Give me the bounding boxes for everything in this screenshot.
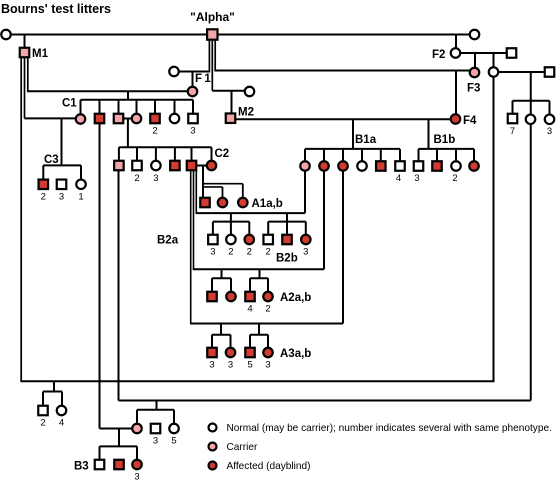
wire B1b child drop 4 [473, 149, 475, 161]
svg-text:3: 3 [265, 360, 270, 371]
male square 549-72 [545, 67, 555, 77]
svg-text:2: 2 [266, 247, 271, 258]
svg-text:3: 3 [153, 436, 158, 447]
C1-3 male (pink carrier) [114, 114, 124, 124]
wire C3 child drop 3 [80, 165, 82, 179]
female child circle 3 [545, 115, 555, 125]
svg-text:2: 2 [247, 247, 252, 258]
A2b-2 female (red affected) [263, 292, 273, 302]
wire A2b child drop 2 [267, 278, 269, 292]
A2b-1 male (red affected) [245, 292, 255, 302]
svg-text:"Alpha": "Alpha" [190, 10, 235, 24]
wire C2 child drop 6 [211, 147, 213, 160]
wire B3 sibship [100, 445, 138, 447]
wire mating C1-3 x C1-4 [123, 118, 132, 120]
wire B2b comb drop [286, 213, 288, 235]
C2-2 male (white normal) [132, 161, 142, 171]
svg-text:3: 3 [547, 126, 552, 137]
bottomleft male (white normal) [38, 406, 48, 416]
svg-text:4: 4 [247, 304, 252, 315]
wire drop to circle493 [493, 53, 495, 68]
wire B1a-3 descent [342, 171, 344, 324]
wire A2a child drop 1 [211, 278, 213, 292]
wire drop to F4 [455, 71, 457, 115]
wire M1 mating line a horizontal to circle493 [20, 380, 494, 382]
wire mating C2-5 x C2-6 [197, 165, 208, 167]
wire B3 child drop 1 [99, 446, 101, 459]
wire bottommid comb drop [156, 401, 158, 410]
svg-text:C3: C3 [44, 154, 59, 166]
wire C1 child drop 5 [154, 100, 156, 114]
svg-text:3: 3 [209, 360, 214, 371]
wire C1 child drop 4 [136, 100, 138, 114]
wire A3a child drop 2 [230, 335, 232, 348]
svg-text:3: 3 [190, 126, 195, 137]
wire bottommid child drop 1 [136, 410, 138, 424]
svg-text:A3a,b: A3a,b [280, 348, 311, 360]
female circle 174-72 [169, 67, 179, 77]
A1-2 female (red affected) [218, 198, 228, 208]
bottommid female (pink carrier) [132, 424, 142, 434]
wire A2b sibship [250, 277, 268, 279]
female F2 [451, 48, 461, 58]
B1a-4 female (white normal) [357, 161, 367, 171]
wire B3 child drop 3 [136, 446, 138, 459]
wire C2-1 descent [118, 171, 120, 401]
B3-2 male (red affected) [114, 460, 124, 470]
svg-text:3: 3 [210, 247, 215, 258]
wire B1a-2 descent [323, 171, 325, 269]
A3b-2 female (red affected) [263, 348, 273, 358]
wire C2-5 descent v1 [190, 171, 192, 324]
wire bottomleft sibship [43, 391, 62, 393]
wire C1 sibship line [81, 99, 194, 101]
wire B1a sibship [305, 148, 400, 150]
wire Alpha mating line b vertical [211, 40, 213, 91]
wire B1a child drop 1 [304, 149, 306, 161]
svg-text:1: 1 [78, 192, 83, 203]
svg-text:3: 3 [59, 192, 64, 203]
C3-3 female (white normal) [76, 180, 86, 190]
female circle 493-72 [489, 67, 499, 77]
wire mating circle174-Alpha line a [179, 71, 210, 73]
female circle top-left [1, 30, 11, 40]
C1-4 female (pink carrier) [132, 114, 142, 124]
svg-text:2: 2 [40, 418, 45, 429]
wire A1b branch drop [242, 184, 244, 198]
svg-text:3: 3 [228, 360, 233, 371]
wire B2b sibship [268, 221, 306, 223]
wire B1a child drop 4 [361, 149, 363, 161]
wire drop to circle3 right [549, 101, 551, 114]
female F1 (pink carrier) [188, 87, 198, 97]
wire C2 child drop 3 [155, 147, 157, 160]
wire M1 mating line b horizontal to C1-1 [25, 117, 77, 119]
svg-text:2: 2 [265, 304, 270, 315]
wire bottommid child drop 3 [173, 410, 175, 424]
bottommid male (white normal) [151, 424, 161, 434]
wire C2-5 descent v2 [193, 171, 195, 270]
female circle top-right [470, 30, 480, 40]
wire B1a child drop 5 [380, 149, 382, 161]
wire Alpha mating line c horizontal to F3 [214, 70, 470, 72]
male F2 mate square [507, 48, 517, 58]
wire Alpha mating line a vertical [208, 40, 210, 72]
A1-1 male (red affected) [200, 198, 210, 208]
wire drop to F2 [455, 35, 457, 50]
wire Alpha mating line c vertical [214, 40, 216, 71]
svg-text:2: 2 [152, 126, 157, 137]
svg-text:5: 5 [171, 436, 176, 447]
svg-text:F3: F3 [467, 83, 480, 95]
wire A1b branch horizontal [203, 183, 243, 185]
svg-text:B1b: B1b [434, 134, 456, 146]
wire mating circleTL-Alpha [10, 34, 207, 36]
wire A1a branch horizontal [203, 186, 223, 188]
wire Alpha mating line b horizontal to circle249 [212, 90, 245, 92]
wire comb drop right family [530, 71, 532, 114]
wire A3b comb drop [258, 324, 260, 335]
wire B1a comb drop [352, 119, 354, 149]
C3-2 male (white normal) [57, 180, 67, 190]
wire A2b child drop 1 [249, 278, 251, 292]
C2-5 male (red affected) [187, 161, 197, 171]
female F3 (pink carrier) [470, 68, 480, 78]
wire bottommid sibship [137, 409, 174, 411]
male Alpha (pink carrier) [207, 29, 217, 39]
svg-text:B2b: B2b [276, 253, 298, 265]
wire C1 child drop 7 [192, 100, 194, 114]
wire M1 mating line c vertical [27, 58, 29, 92]
svg-text:F2: F2 [432, 49, 445, 61]
svg-text:B2a: B2a [157, 235, 179, 247]
B2a-1 male (white normal) [208, 235, 218, 245]
wire A2a child drop 2 [230, 278, 232, 292]
A2a-1 male (red affected) [207, 292, 217, 302]
C2-4 male (red affected) [170, 161, 180, 171]
svg-text:A2a,b: A2a,b [280, 292, 311, 304]
wire B1a child drop 3 [342, 149, 344, 161]
svg-text:Bourns' test litters: Bourns' test litters [1, 2, 111, 16]
svg-text:Carrier: Carrier [227, 442, 258, 453]
bottommid female2 (white normal) [169, 424, 179, 434]
B3-1 male (white normal) [95, 460, 105, 470]
B1a-5 male (red affected) [376, 161, 386, 171]
wire A2b comb drop [259, 269, 261, 278]
wire A3b child drop 2 [267, 335, 269, 348]
C1-7 male (white normal) [188, 114, 198, 124]
B2b-3 female (red affected) [301, 235, 311, 245]
A1-3 female (red affected) [238, 198, 248, 208]
male child square 7 [508, 114, 518, 124]
female F4 (red affected) [451, 114, 461, 124]
C1-5 male (red affected) [150, 114, 160, 124]
wire drop to M1 [24, 35, 26, 49]
svg-text:M1: M1 [32, 48, 49, 60]
C2-1 male (pink carrier) [114, 161, 124, 171]
B2a-2 female (white normal) [226, 235, 236, 245]
wire M1 mating line a vertical [20, 58, 22, 382]
B2b-2 male (red affected) [282, 235, 292, 245]
svg-text:3: 3 [134, 472, 139, 483]
B1b-1 male (white normal) [414, 161, 424, 171]
wire C2 child drop 4 [174, 147, 176, 160]
male M1 (pink carrier) [20, 48, 30, 58]
svg-text:3: 3 [414, 173, 419, 184]
wire B2b child drop 3 [305, 222, 307, 235]
A2a-2 female (red affected) [226, 292, 236, 302]
wire B1b child drop 1 [418, 149, 420, 161]
wire drop to F3 [474, 53, 476, 68]
svg-text:F4: F4 [463, 115, 477, 127]
wire drop to square7 [512, 101, 514, 114]
wire A3b child drop 1 [249, 335, 251, 348]
C1-2 male (red affected) [95, 114, 105, 124]
B1b-4 female (red affected) [469, 161, 479, 171]
wire A1 mating drop [202, 166, 204, 199]
svg-text:Normal (may be carrier); numbe: Normal (may be carrier); number indicate… [227, 423, 552, 434]
svg-text:4: 4 [396, 173, 401, 184]
svg-text:C1: C1 [62, 98, 77, 110]
wire mating F2-square [460, 52, 507, 54]
svg-text:3: 3 [303, 247, 308, 258]
wire B1b comb drop [428, 119, 430, 149]
wire B2a sibship [213, 221, 249, 223]
B1a-2 female (red affected) [319, 161, 329, 171]
wire mating C2-1 x circle530 [119, 400, 531, 402]
wire mating C2-5 x B1a-1 [196, 212, 306, 214]
svg-text:2: 2 [452, 173, 457, 184]
wire drop to F1 [192, 72, 194, 88]
svg-text:2: 2 [134, 173, 139, 184]
svg-text:C2: C2 [215, 148, 230, 160]
wire B1b child drop 3 [455, 149, 457, 161]
wire bottomleft comb drop [53, 381, 55, 391]
wire C3 sibship line [43, 164, 81, 166]
wire M1 mating line b vertical [24, 58, 26, 119]
wire M1 mating line c horizontal to F1 [27, 90, 188, 92]
female child circle mid [526, 115, 536, 125]
wire mating C2-5 x B1a-3 [190, 323, 343, 325]
wire B2b child drop 1 [267, 222, 269, 235]
wire C2 sibship line [119, 146, 212, 148]
wire C1 child drop 1 [80, 100, 82, 114]
svg-text:Affected (dayblind): Affected (dayblind) [227, 461, 311, 472]
wire C2 child drop 5 [191, 147, 193, 160]
A3a-1 male (red affected) [207, 348, 217, 358]
svg-text:4: 4 [59, 418, 64, 429]
wire C2 comb drop [127, 119, 129, 148]
B3-3 female (red affected) [132, 460, 142, 470]
svg-text:M2: M2 [238, 107, 254, 119]
wire A3a sibship [212, 334, 231, 336]
wire circle493 descent [493, 78, 495, 382]
C1-6 female (white normal) [170, 114, 180, 124]
wire bottomleft child drop 2 [61, 392, 63, 406]
svg-text:2: 2 [41, 192, 46, 203]
A3a-2 female (red affected) [226, 348, 236, 358]
wire C1 comb drop [127, 91, 129, 100]
wire C3 child drop 1 [42, 165, 44, 179]
wire B1a child drop 2 [323, 149, 325, 161]
wire B2a child drop 1 [212, 222, 214, 235]
svg-text:A1a,b: A1a,b [252, 198, 283, 210]
wire C1 child drop 2 [99, 100, 101, 114]
legend affected circle [209, 462, 217, 470]
wire mating M2 x F4 [236, 118, 451, 120]
female circle 249-91 [245, 87, 255, 97]
B1a-1 female (pink carrier) [300, 161, 310, 171]
wire C1 child drop 3 [118, 100, 120, 114]
svg-text:7: 7 [510, 126, 515, 137]
wire C2 child drop 2 [136, 147, 138, 160]
wire A3a comb drop [220, 324, 222, 335]
male M2 (pink carrier) [226, 113, 236, 123]
wire A2a comb drop [221, 269, 223, 278]
svg-text:F 1: F 1 [195, 73, 211, 85]
C1-1 female (pink carrier) [76, 114, 86, 124]
wire sibship right family [513, 100, 550, 102]
wire C2 child drop 1 [118, 147, 120, 160]
wire mating C1-2 to pink circle bottom [100, 428, 134, 430]
wire A2a sibship [212, 277, 231, 279]
bottomleft female (white normal) [57, 406, 67, 416]
wire B1a-1 descent [304, 171, 306, 213]
B1a-3 female (red affected) [338, 161, 348, 171]
wire B1b sibship [419, 148, 475, 150]
wire bottomleft child drop 1 [42, 392, 44, 406]
wire C1-2 descent [99, 124, 101, 429]
B2b-1 male (white normal) [263, 235, 273, 245]
wire B2a comb drop [230, 213, 232, 235]
svg-text:B1a: B1a [355, 134, 377, 146]
C2-3 female (white normal) [151, 161, 161, 171]
B1b-2 male (red affected) [432, 161, 442, 171]
svg-text:B3: B3 [74, 461, 89, 473]
wire mating Alpha-circleTR [218, 34, 470, 36]
wire A3b sibship [250, 334, 268, 336]
B1b-3 female (white normal) [451, 161, 461, 171]
wire B2a child drop 3 [248, 222, 250, 235]
wire B1b child drop 2 [436, 149, 438, 161]
wire B1a child drop 6 [399, 149, 401, 161]
wire drop to M2 [231, 91, 233, 114]
A3b-1 male (red affected) [245, 348, 255, 358]
wire C2-5 descent v3 [195, 171, 197, 214]
wire mating circle493-square549 [498, 71, 545, 73]
legend carrier circle [209, 443, 217, 451]
wire circle530 descent [530, 125, 532, 401]
B2a-3 female (red affected) [245, 235, 255, 245]
legend normal circle [209, 424, 217, 432]
B1a-6 male (white normal) [395, 161, 405, 171]
C3-1 male (red affected) [39, 180, 49, 190]
svg-text:3: 3 [153, 173, 158, 184]
C2-6 female (red affected) [207, 161, 217, 171]
wire mating C2-5 x B1a-2 [193, 268, 324, 270]
svg-text:2: 2 [228, 247, 233, 258]
wire C3 comb drop [61, 118, 63, 165]
wire C1 child drop 6 [174, 100, 176, 114]
wire B3 comb drop [118, 429, 120, 447]
wire A1a branch drop [222, 187, 224, 198]
wire A3a child drop 1 [211, 335, 213, 348]
svg-text:5: 5 [247, 360, 252, 371]
